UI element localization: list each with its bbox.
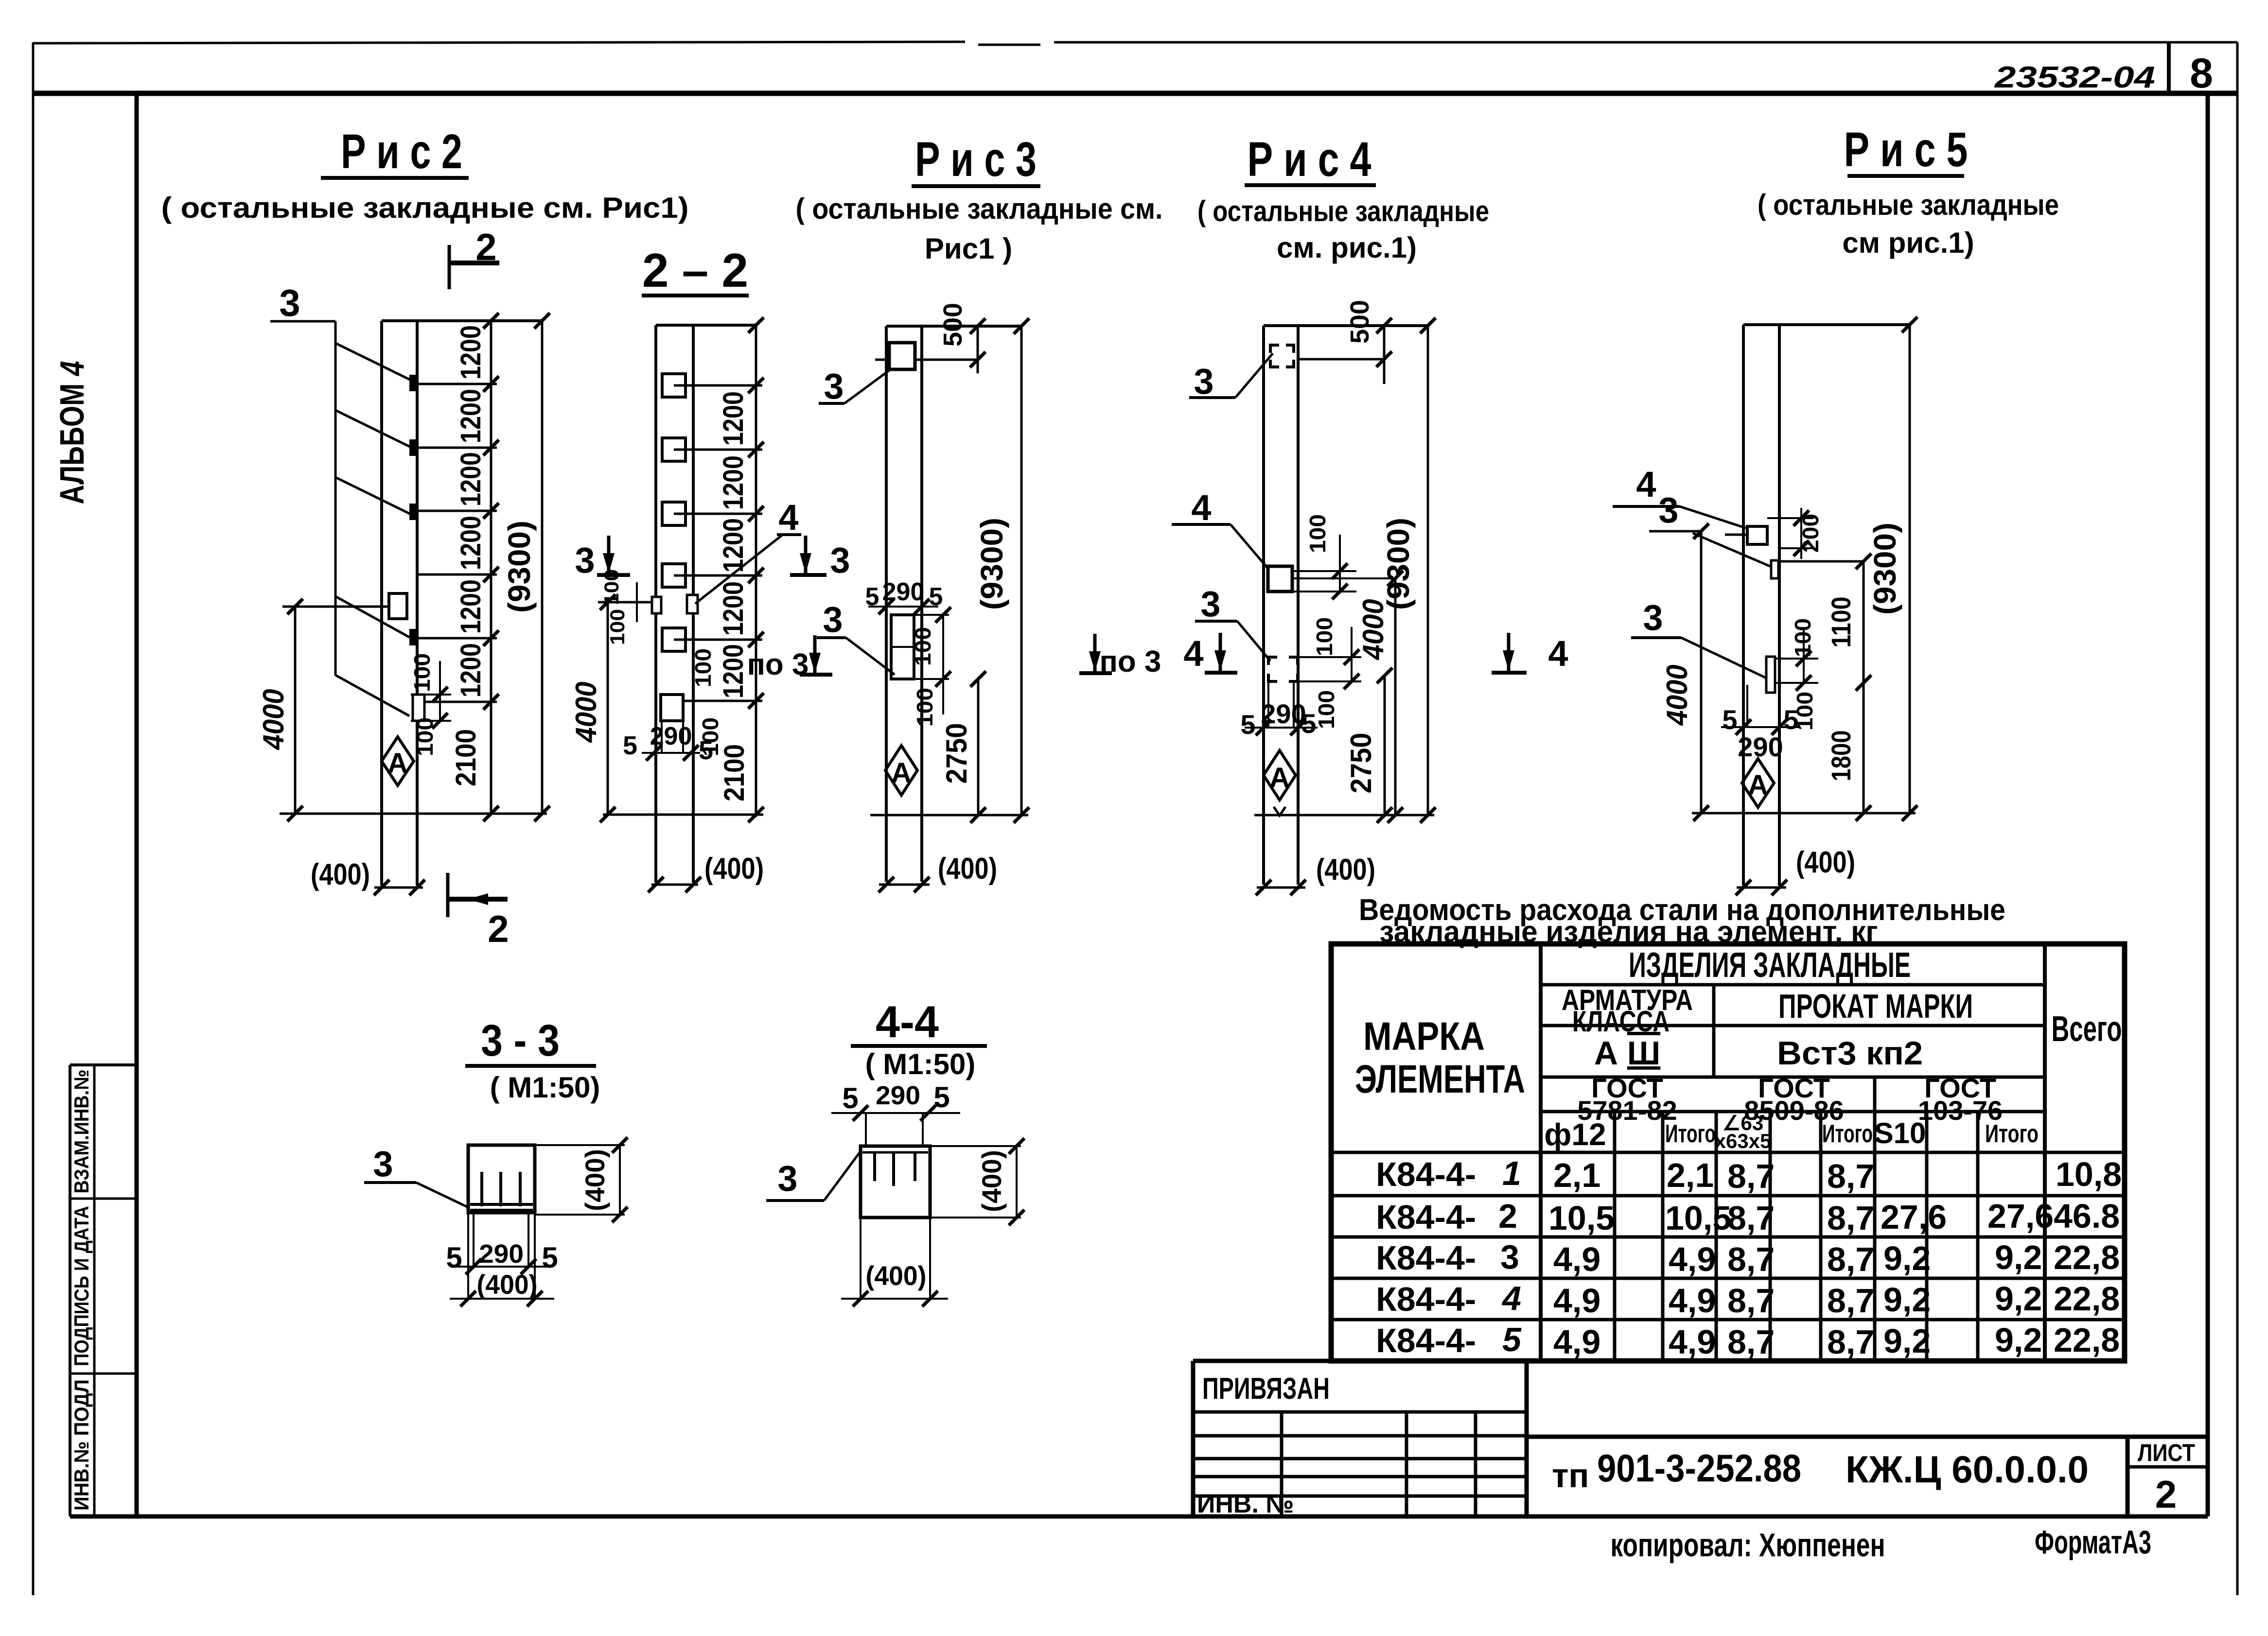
- section marker 3 (right of 2-2): [800, 536, 811, 574]
- svg-text:4,9: 4,9: [1669, 1323, 1716, 1361]
- svg-text:( М1:50): ( М1:50): [865, 1048, 976, 1080]
- outer border left: [32, 42, 35, 1595]
- svg-text:А: А: [1269, 762, 1290, 794]
- dim 2750 (Рис 4): [1384, 676, 1386, 815]
- svg-text:290: 290: [882, 578, 925, 606]
- svg-text:Р и с 3: Р и с 3: [915, 132, 1037, 187]
- svg-text:290: 290: [479, 1239, 524, 1269]
- svg-text:1: 1: [1502, 1154, 1521, 1192]
- section marker 4 (right of Рис 4): [1503, 633, 1514, 671]
- svg-text:3: 3: [777, 1158, 797, 1199]
- svg-text:х63х5: х63х5: [1715, 1130, 1772, 1152]
- svg-text:3: 3: [824, 366, 844, 406]
- svg-text:100: 100: [1314, 690, 1339, 729]
- svg-text:( остальные закладные см. Ри: ( остальные закладные см. Рис1): [161, 191, 689, 224]
- svg-text:(400): (400): [1316, 853, 1375, 887]
- embed marks on column face (Рис 2): [409, 375, 417, 645]
- mark diamond А (Рис 3): [885, 746, 917, 795]
- embed plate mid (Рис 2): [389, 593, 407, 619]
- mark diamond А (Рис 5): [1742, 759, 1774, 807]
- svg-text:3: 3: [1658, 490, 1678, 530]
- svg-text:10,5: 10,5: [1548, 1199, 1615, 1237]
- outer border top (with scan breaks): [33, 42, 965, 43]
- left margin boxes: [69, 1065, 71, 1516]
- dim 500 (Рис 4): [1298, 326, 1384, 384]
- svg-text:1200: 1200: [455, 452, 487, 506]
- svg-text:ф12: ф12: [1544, 1117, 1606, 1152]
- section cut marker 2 (bottom): [448, 873, 508, 917]
- svg-text:100: 100: [606, 609, 629, 645]
- section 4-4 column cut: [861, 1146, 930, 1218]
- dims 100 100 (Рис 5): [1775, 627, 1818, 683]
- svg-text:8,7: 8,7: [1727, 1199, 1775, 1237]
- overall dim (9300) Рис 5: [1909, 325, 1911, 813]
- svg-text:3: 3: [575, 540, 595, 580]
- tick lines from squares to dim line: [674, 325, 762, 817]
- overall dim (9300): [541, 321, 544, 814]
- svg-text:5: 5: [542, 1241, 558, 1274]
- svg-text:Р и с 2: Р и с 2: [341, 124, 462, 179]
- column К84-4 (Рис 2) body: [382, 321, 542, 886]
- svg-text:5: 5: [1783, 704, 1798, 735]
- svg-text:9,2: 9,2: [1883, 1281, 1931, 1319]
- bottom width dim (400) Рис 5: [1737, 887, 1786, 889]
- column 2-2 body: [656, 325, 756, 883]
- svg-text:3: 3: [1200, 584, 1220, 624]
- dim 4000 (Рис 5): [1700, 531, 1703, 813]
- svg-text:(9300): (9300): [1867, 522, 1902, 615]
- baseline Рис 3: [870, 814, 1028, 817]
- embed plate top (Рис 3): [889, 343, 915, 369]
- svg-text:3: 3: [1194, 361, 1213, 401]
- svg-text:2,1: 2,1: [1553, 1156, 1600, 1194]
- svg-text:А: А: [1748, 769, 1768, 801]
- svg-text:22,8: 22,8: [2054, 1321, 2120, 1359]
- svg-text:ИНВ. №: ИНВ. №: [1197, 1490, 1294, 1518]
- svg-text:3 - 3: 3 - 3: [481, 1016, 560, 1065]
- dim 4000 left: [280, 607, 547, 814]
- svg-text:500: 500: [1345, 300, 1374, 344]
- page no box divider: [2167, 42, 2171, 93]
- dims 5 290 5 (Рис 3): [868, 606, 938, 608]
- embed squares in 2-2: [661, 374, 686, 721]
- svg-text:1800: 1800: [1826, 731, 1856, 782]
- overall dim (9300) Рис 4: [1427, 326, 1429, 815]
- mark diamond А (Рис 2): [382, 737, 414, 785]
- svg-text:1100: 1100: [1826, 597, 1856, 648]
- svg-text:8,7: 8,7: [1727, 1240, 1775, 1278]
- svg-text:27,6: 27,6: [1881, 1198, 1947, 1236]
- column К84-4 (Рис 3) body: [886, 326, 1021, 882]
- svg-text:10,5: 10,5: [1665, 1199, 1731, 1237]
- svg-text:100: 100: [1790, 618, 1815, 657]
- svg-text:5: 5: [1502, 1321, 1522, 1358]
- dim 1100 (Рис 5): [1863, 561, 1865, 813]
- svg-text:ИЗДЕЛИЯ ЗАКЛАДНЫЕ: ИЗДЕЛИЯ ЗАКЛАДНЫЕ: [1629, 946, 1911, 985]
- svg-text:4,9: 4,9: [1553, 1282, 1600, 1320]
- top strip thick line: [33, 91, 2237, 96]
- svg-text:4,9: 4,9: [1553, 1323, 1600, 1361]
- svg-text:9,2: 9,2: [1995, 1238, 2042, 1276]
- svg-text:22,8: 22,8: [2054, 1238, 2120, 1276]
- svg-text:4,9: 4,9: [1669, 1240, 1716, 1278]
- baseline Рис 5: [1692, 812, 1916, 815]
- svg-text:Итого: Итого: [1665, 1120, 1716, 1148]
- svg-text:Рис1 ): Рис1 ): [925, 232, 1012, 265]
- svg-text:К84-4-: К84-4-: [1376, 1239, 1476, 1277]
- baseline Рис 4: [1254, 814, 1434, 817]
- embed plate solid (Рис 4): [1268, 566, 1292, 592]
- embed plate bottom (Рис 2): [413, 695, 424, 721]
- svg-text:5: 5: [865, 583, 879, 611]
- svg-text:27,6: 27,6: [1987, 1197, 2054, 1235]
- svg-text:3: 3: [373, 1144, 393, 1184]
- svg-text:5: 5: [1240, 709, 1255, 740]
- svg-text:1200: 1200: [718, 581, 749, 636]
- svg-text:Итого: Итого: [1985, 1120, 2039, 1148]
- svg-text:901-3-252.88: 901-3-252.88: [1597, 1446, 1801, 1490]
- svg-text:(9300): (9300): [1381, 518, 1416, 610]
- svg-text:9,2: 9,2: [1995, 1321, 2042, 1359]
- svg-text:КЖ.Ц 60.0.0.0: КЖ.Ц 60.0.0.0: [1846, 1448, 2089, 1491]
- svg-text:2: 2: [488, 907, 509, 950]
- svg-text:2: 2: [1498, 1197, 1517, 1235]
- svg-text:2: 2: [2155, 1473, 2177, 1516]
- svg-text:1200: 1200: [455, 325, 487, 380]
- svg-text:500: 500: [938, 303, 967, 347]
- svg-text:5: 5: [1722, 704, 1737, 735]
- svg-text:(400): (400): [938, 852, 997, 886]
- dims 5 290 5 (3-3): [452, 1213, 549, 1267]
- svg-text:100: 100: [1305, 514, 1330, 553]
- svg-text:К84-4-: К84-4-: [1376, 1198, 1476, 1236]
- right dim (400) 4-4: [930, 1146, 1021, 1218]
- svg-text:4: 4: [1636, 464, 1656, 505]
- svg-text:8,7: 8,7: [1727, 1282, 1775, 1320]
- svg-text:100: 100: [912, 688, 937, 727]
- svg-text:(400): (400): [704, 852, 764, 886]
- svg-text:8: 8: [2190, 50, 2213, 97]
- side plates (item 4) in 2-2: [652, 597, 661, 613]
- dim 200 (Рис 5): [1767, 508, 1813, 559]
- svg-text:200: 200: [1798, 514, 1823, 553]
- dim 500 (Рис 3): [875, 326, 978, 373]
- section 3-3 column cut: [468, 1145, 535, 1213]
- svg-text:(400): (400): [311, 858, 370, 891]
- svg-text:290: 290: [1738, 731, 1783, 762]
- svg-text:1200: 1200: [455, 643, 487, 697]
- svg-text:4000: 4000: [570, 682, 602, 743]
- svg-text:290: 290: [650, 722, 692, 750]
- svg-text:1200: 1200: [455, 579, 487, 634]
- svg-text:ЛИСТ: ЛИСТ: [2138, 1439, 2195, 1466]
- svg-text:22,8: 22,8: [2054, 1280, 2120, 1318]
- bottom dim (400) 4-4: [841, 1218, 948, 1299]
- svg-text:(400): (400): [580, 1149, 610, 1211]
- column К84-4 (Рис 5) body: [1743, 325, 1910, 886]
- svg-text:3: 3: [823, 599, 843, 640]
- svg-text:100: 100: [910, 627, 935, 666]
- overall dim (9300) Рис 3: [1020, 326, 1023, 815]
- dims 100 100 (Рис 3): [914, 615, 949, 714]
- bottom embed dims 5 290 5 (2-2): [642, 721, 700, 753]
- title block: [1193, 1361, 2208, 1516]
- svg-text:1200: 1200: [718, 391, 749, 446]
- dim 4000 (2-2 left): [598, 602, 763, 815]
- dims 5 290 5 (Рис 5): [1721, 685, 1799, 727]
- svg-text:3: 3: [1500, 1238, 1519, 1276]
- svg-text:100: 100: [409, 653, 435, 692]
- svg-text:2100: 2100: [450, 729, 482, 786]
- svg-text:К84-4-: К84-4-: [1376, 1155, 1476, 1193]
- svg-text:(400): (400): [976, 1150, 1007, 1212]
- svg-text:по 3: по 3: [747, 648, 809, 681]
- svg-text:9,2: 9,2: [1995, 1280, 2042, 1318]
- svg-text:3: 3: [1643, 597, 1663, 638]
- marker по 3 (left of Рис 4): [1089, 634, 1101, 672]
- dims 5 290 5 (Рис 4): [1245, 681, 1318, 728]
- svg-text:(400): (400): [866, 1260, 927, 1291]
- embed dashed mid (Рис 4): [1268, 657, 1298, 681]
- embed item mid (Рис 3): [891, 615, 914, 679]
- svg-text:(400): (400): [1796, 846, 1855, 879]
- dim 2750 (Рис 3): [977, 679, 980, 815]
- svg-text:4000: 4000: [1357, 599, 1389, 661]
- bottom dim (400) 3-3: [450, 1213, 554, 1299]
- svg-text:тп: тп: [1552, 1457, 1589, 1495]
- embed dashed top (Рис 4): [1270, 345, 1294, 367]
- svg-text:10,8: 10,8: [2056, 1155, 2122, 1193]
- svg-text:100: 100: [412, 717, 438, 756]
- svg-text:1200: 1200: [718, 644, 749, 698]
- svg-text:2750: 2750: [1345, 733, 1377, 794]
- small 100 dims left of 2-2: [626, 582, 652, 622]
- svg-text:КЛАССА: КЛАССА: [1572, 1005, 1670, 1038]
- svg-text:100: 100: [690, 648, 716, 687]
- svg-text:А: А: [891, 757, 912, 789]
- dim 4000 (Рис 4): [1394, 578, 1397, 815]
- svg-text:8,7: 8,7: [1727, 1157, 1775, 1195]
- svg-text:ПОДПИСЬ И ДАТА: ПОДПИСЬ И ДАТА: [70, 1206, 93, 1366]
- svg-text:см. рис.1): см. рис.1): [1277, 231, 1417, 264]
- svg-text:100: 100: [698, 717, 723, 756]
- svg-text:Вст3 кп2: Вст3 кп2: [1777, 1035, 1923, 1072]
- svg-text:8,7: 8,7: [1827, 1323, 1874, 1361]
- svg-text:S10: S10: [1874, 1117, 1926, 1149]
- svg-text:4: 4: [1191, 487, 1211, 528]
- svg-text:5: 5: [623, 731, 637, 760]
- svg-text:ВЗАМ.ИНВ.№: ВЗАМ.ИНВ.№: [70, 1070, 93, 1194]
- svg-text:4: 4: [1501, 1279, 1521, 1317]
- svg-text:(9300): (9300): [974, 518, 1009, 610]
- bottom width dim (400) Рис 4: [1257, 887, 1305, 889]
- right dim (400) 3-3: [535, 1145, 625, 1215]
- svg-text:23532-04: 23532-04: [1994, 61, 2155, 94]
- svg-text:290: 290: [876, 1081, 920, 1110]
- bottom width dim (400) Рис 3: [879, 884, 930, 886]
- rebar anchors 3-3: [470, 1172, 533, 1210]
- table grid: [1331, 944, 2125, 1361]
- svg-text:5: 5: [1301, 708, 1316, 739]
- outer border right: [2236, 42, 2239, 1595]
- svg-text:( М1:50): ( М1:50): [490, 1071, 600, 1104]
- svg-text:5: 5: [929, 583, 943, 611]
- svg-text:9,2: 9,2: [1883, 1239, 1931, 1277]
- svg-text:5: 5: [446, 1241, 462, 1274]
- svg-text:8,7: 8,7: [1827, 1240, 1874, 1278]
- section cut marker 2 (top): [449, 245, 499, 289]
- svg-text:2 – 2: 2 – 2: [642, 244, 748, 297]
- svg-text:( остальные закладные см.: ( остальные закладные см.: [796, 192, 1163, 225]
- svg-text:по 3: по 3: [1099, 645, 1161, 679]
- svg-text:АЛЬБОМ 4: АЛЬБОМ 4: [53, 361, 91, 505]
- embed plate top (Рис 5): [1747, 526, 1767, 544]
- svg-text:4000: 4000: [1661, 665, 1693, 726]
- svg-text:46.8: 46.8: [2054, 1197, 2120, 1235]
- dims 5 290 5 (4-4 top): [831, 1113, 960, 1146]
- svg-text:3: 3: [830, 540, 850, 580]
- svg-text:копировал: Хюппенен: копировал: Хюппенен: [1611, 1527, 1885, 1564]
- svg-text:5: 5: [933, 1081, 949, 1114]
- svg-text:ФорматА3: ФорматА3: [2035, 1524, 2151, 1561]
- svg-text:8,7: 8,7: [1827, 1157, 1874, 1195]
- svg-text:см рис.1): см рис.1): [1842, 226, 1974, 259]
- svg-text:Р и с 5: Р и с 5: [1844, 122, 1968, 177]
- svg-text:ПРОКАТ МАРКИ: ПРОКАТ МАРКИ: [1778, 987, 1973, 1025]
- svg-text:4: 4: [1548, 633, 1568, 674]
- column К84-4 (Рис 4) body: [1264, 326, 1428, 885]
- side plate (Рис 5): [1771, 560, 1778, 578]
- svg-text:Р и с 4: Р и с 4: [1248, 132, 1371, 187]
- rebar anchors 4-4: [875, 1152, 915, 1186]
- svg-text:ПРИВЯЗАН: ПРИВЯЗАН: [1202, 1372, 1330, 1406]
- svg-text:МАРКА: МАРКА: [1363, 1014, 1485, 1059]
- svg-text:1200: 1200: [455, 516, 487, 570]
- svg-text:4000: 4000: [257, 689, 290, 750]
- svg-text:1200: 1200: [455, 389, 487, 443]
- svg-text:4: 4: [778, 497, 798, 538]
- dimension chain 1200x6+2100: [417, 321, 497, 814]
- svg-text:К84-4-: К84-4-: [1376, 1280, 1476, 1318]
- inner frame left: [135, 93, 139, 1516]
- mark diamond А (Рис 4): [1264, 750, 1296, 800]
- inner frame bottom: [70, 1514, 2208, 1519]
- svg-text:4: 4: [1183, 633, 1203, 674]
- svg-text:2750: 2750: [940, 723, 973, 784]
- svg-text:К84-4-: К84-4-: [1376, 1322, 1476, 1359]
- svg-text:3: 3: [279, 281, 300, 324]
- table data rows: [1376, 1154, 2122, 1361]
- svg-text:ИНВ.№ ПОДЛ: ИНВ.№ ПОДЛ: [70, 1379, 93, 1511]
- svg-text:4,9: 4,9: [1553, 1240, 1600, 1278]
- svg-text:2: 2: [475, 226, 496, 268]
- svg-text:А: А: [387, 748, 408, 779]
- svg-text:2,1: 2,1: [1667, 1156, 1714, 1194]
- svg-text:(400): (400): [477, 1269, 538, 1300]
- svg-text:8,7: 8,7: [1827, 1199, 1874, 1237]
- svg-text:Всего: Всего: [2052, 1009, 2122, 1049]
- embed plate lower (Рис 5): [1766, 657, 1775, 693]
- svg-text:4-4: 4-4: [876, 997, 939, 1047]
- svg-text:2100: 2100: [719, 744, 750, 801]
- bottom width dim (400): [374, 887, 423, 889]
- svg-text:Итого: Итого: [1822, 1120, 1873, 1148]
- svg-text:5: 5: [842, 1082, 858, 1114]
- svg-text:290: 290: [1261, 698, 1306, 729]
- svg-text:8,7: 8,7: [1727, 1323, 1775, 1361]
- bottom width dim (400) 2-2: [651, 884, 698, 886]
- svg-text:8,7: 8,7: [1827, 1282, 1874, 1320]
- svg-text:( остальные закладные: ( остальные закладные: [1758, 189, 2059, 221]
- svg-text:4,9: 4,9: [1669, 1282, 1716, 1320]
- inner frame right: [2206, 93, 2210, 1516]
- svg-text:ЭЛЕМЕНТА: ЭЛЕМЕНТА: [1355, 1057, 1525, 1101]
- svg-text:( остальные закладные: ( остальные закладные: [1197, 195, 1489, 227]
- svg-text:1200: 1200: [718, 455, 749, 510]
- svg-text:(9300): (9300): [502, 521, 537, 613]
- svg-text:А Ш: А Ш: [1594, 1035, 1660, 1072]
- svg-text:9,2: 9,2: [1883, 1322, 1931, 1360]
- svg-text:100: 100: [1312, 617, 1337, 656]
